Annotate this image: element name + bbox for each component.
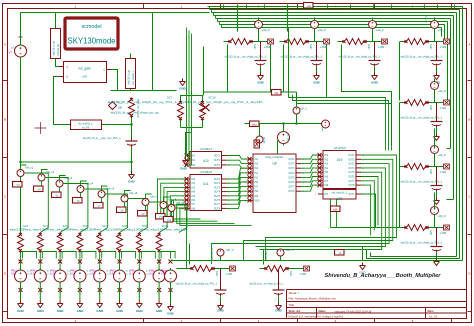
source W9 xyxy=(168,205,175,212)
resistor cell R2 xyxy=(280,18,330,85)
wire RB4 staple xyxy=(80,252,96,271)
svg-text:0 0.1: 0 0.1 xyxy=(11,274,17,276)
net label V5 box xyxy=(52,192,62,198)
wire VB2 to ground xyxy=(39,284,41,301)
svg-text:V11: V11 xyxy=(167,219,172,222)
svg-text:net_bus_a2: net_bus_a2 xyxy=(265,247,268,259)
wire R10 bottom xyxy=(131,118,133,140)
mid pair wiring xyxy=(181,91,203,101)
svg-text:Title:: Title: xyxy=(289,303,296,307)
source VB2 xyxy=(34,268,46,284)
svg-text:File: Acharyya_Booth_Multiplie: File: Acharyya_Booth_Multiplier.sch xyxy=(289,297,337,301)
wire RB11 up xyxy=(263,250,265,265)
wire U78 to resistor R10 xyxy=(102,124,132,126)
svg-text:vdd_1!: vdd_1! xyxy=(438,153,446,157)
junction dots xyxy=(130,123,132,125)
wire W4 to resistor row xyxy=(81,181,87,197)
wires U8 to U19 xyxy=(301,155,318,159)
svg-text:108: 108 xyxy=(118,106,123,110)
svg-text:u76: u76 xyxy=(82,75,87,79)
svg-text:OUT4: OUT4 xyxy=(348,168,355,170)
wire VB4 to ground xyxy=(79,284,81,301)
svg-text:0 0.1: 0 0.1 xyxy=(110,274,116,276)
wire VB7 to ground xyxy=(138,284,140,301)
svg-text:bbl_s4: bbl_s4 xyxy=(86,182,94,186)
svg-text:GND: GND xyxy=(371,81,379,85)
svg-text:+PL3(8)L3: +PL3(8)L3 xyxy=(199,147,212,151)
ground mid xyxy=(180,79,186,86)
resistor RB2 xyxy=(37,233,43,253)
svg-text:SC3: SC3 xyxy=(23,224,29,228)
wire Vbl net horizontal xyxy=(204,28,297,96)
wire res_gate right to net xyxy=(112,54,131,91)
resistor RB1 xyxy=(18,233,24,253)
wire W7 to resistor row xyxy=(146,194,152,210)
svg-text:Vbl: Vbl xyxy=(274,91,278,95)
wire right column cross links xyxy=(447,199,454,201)
svg-text:PWL(: PWL( xyxy=(110,271,116,273)
svg-text:vdd_1!: vdd_1! xyxy=(438,214,446,218)
resistor R12 mid pair xyxy=(178,101,184,121)
svg-text:GND: GND xyxy=(257,81,265,85)
svg-text:0 0.1: 0 0.1 xyxy=(161,274,167,276)
svg-text:OUT2: OUT2 xyxy=(214,160,221,162)
svg-text:OUT2: OUT2 xyxy=(214,183,221,185)
svg-text:1.43M: 1.43M xyxy=(440,107,447,110)
title block frame xyxy=(287,289,467,291)
svg-text:OUT6: OUT6 xyxy=(348,177,355,179)
wire bundle stubs top xyxy=(223,5,225,9)
svg-text:OUT6: OUT6 xyxy=(214,200,221,202)
wire W8 to resistor row xyxy=(164,197,170,213)
resistor cell R4 xyxy=(400,18,450,85)
svg-text:U20: U20 xyxy=(337,197,343,201)
ground on trunk xyxy=(360,263,366,270)
resistor RB6 xyxy=(117,233,123,253)
svg-text:GND: GND xyxy=(180,167,188,171)
terminal marks column 2 xyxy=(38,260,42,264)
wires U11 to U8 xyxy=(227,168,249,179)
svg-text:+PL3(8)L8: +PL3(8)L8 xyxy=(333,146,346,150)
svg-text:vbl_s1: vbl_s1 xyxy=(263,136,266,144)
svg-text:SC5: SC5 xyxy=(63,224,69,228)
svg-text:Size: A4: Size: A4 xyxy=(289,309,301,313)
svg-text:OUT1: OUT1 xyxy=(288,159,295,161)
source VB5 xyxy=(94,268,106,284)
svg-text:OUT3: OUT3 xyxy=(348,164,355,166)
svg-text:PWL(: PWL( xyxy=(90,271,96,273)
svg-text:ved_1!: ved_1! xyxy=(321,124,324,132)
source VB7 xyxy=(133,268,145,284)
wire VB9 to ground xyxy=(170,284,172,304)
top horizontal wire bundle xyxy=(208,6,463,8)
lower band to bottom cells staircase xyxy=(266,201,397,261)
wire RB2 staple xyxy=(40,252,56,271)
svg-text:1575: 1575 xyxy=(310,44,313,50)
svg-text:sky130_fd_pr: sky130_fd_pr xyxy=(128,70,131,85)
resistor cell R5 xyxy=(400,79,450,141)
source VB1 xyxy=(15,268,27,284)
junction dots Vout net xyxy=(295,122,297,124)
source V31 bottom xyxy=(277,249,284,256)
svg-text:1.43M: 1.43M xyxy=(226,273,233,276)
svg-text:GND: GND xyxy=(116,309,124,313)
wire right column left rail xyxy=(399,103,401,228)
svg-text:OUT5: OUT5 xyxy=(348,172,355,174)
net label V11 box xyxy=(164,217,174,223)
svg-text:GND: GND xyxy=(313,81,321,85)
wire W6 to resistor row xyxy=(125,191,131,207)
svg-text:OUT6: OUT6 xyxy=(288,182,295,184)
wire cap R5 to R6 source xyxy=(434,129,436,148)
resistor cell R1 xyxy=(224,18,274,85)
diode D1 diamond xyxy=(109,102,117,110)
terminal marks column 5 xyxy=(98,260,102,264)
svg-text:0 0.1: 0 0.1 xyxy=(70,274,76,276)
terminal marks column 6 xyxy=(118,260,122,264)
wire RB1 staple xyxy=(21,252,37,271)
svg-text:OUT4: OUT4 xyxy=(288,173,295,175)
source VB9 xyxy=(165,268,177,284)
svg-text:vdd_1!: vdd_1! xyxy=(262,28,270,32)
svg-text:SC4: SC4 xyxy=(43,224,49,228)
svg-text:Sheet: /: Sheet: / xyxy=(289,291,300,295)
svg-text:sky130_fd_pr__cap_mim_PVL_1: sky130_fd_pr__cap_mim_PVL_1 xyxy=(83,136,122,140)
source W1 xyxy=(17,170,24,177)
svg-text:vdd_1!: vdd_1! xyxy=(318,28,326,32)
wires below U20 to R7 rail xyxy=(331,199,400,228)
svg-text:1575: 1575 xyxy=(430,169,433,175)
source W4 xyxy=(77,186,84,193)
source VB4 xyxy=(74,268,86,284)
wire W1 to resistor row xyxy=(21,165,27,181)
svg-text:net_bus_a1: net_bus_a1 xyxy=(211,247,214,259)
resistor cell R3 xyxy=(338,18,388,85)
svg-text:B: B xyxy=(4,118,6,122)
net label Vbl box xyxy=(272,90,282,96)
right bundle bottom turn to enclosure xyxy=(363,247,463,261)
svg-text:IN10: IN10 xyxy=(255,200,261,202)
IC U11 box xyxy=(182,170,230,211)
wire RB5 staple xyxy=(100,252,116,271)
svg-text:0 0.1: 0 0.1 xyxy=(130,274,136,276)
svg-text:OUT8: OUT8 xyxy=(348,185,355,187)
svg-text:1575: 1575 xyxy=(254,44,257,50)
wire drop from R3 left terminal xyxy=(342,45,392,146)
wire below V1 down to W column xyxy=(20,59,22,233)
svg-text:U8: U8 xyxy=(272,162,276,166)
right vertical wire bundle xyxy=(462,7,464,261)
svg-text:0 0.1: 0 0.1 xyxy=(150,274,156,276)
svg-text:bbl_s1: bbl_s1 xyxy=(26,166,34,170)
svg-text:v1: v1 xyxy=(11,46,14,50)
net label box below U20 xyxy=(331,206,341,212)
svg-text:GND: GND xyxy=(37,309,45,313)
svg-text:1.43M: 1.43M xyxy=(440,46,447,49)
svg-text:vbl_1: vbl_1 xyxy=(301,107,308,111)
svg-text:bbl_s7: bbl_s7 xyxy=(151,195,159,199)
voltage source V9 mid xyxy=(278,130,290,146)
svg-text:GND: GND xyxy=(96,309,104,313)
svg-text:GND: GND xyxy=(77,309,85,313)
svg-text:1575: 1575 xyxy=(368,44,371,50)
svg-text:GND: GND xyxy=(179,87,187,91)
wire res_gate loop left xyxy=(54,77,71,125)
svg-text:bbl_s9: bbl_s9 xyxy=(177,201,185,205)
svg-text:SC8: SC8 xyxy=(122,224,128,228)
net label V4 box xyxy=(34,186,44,192)
IC U8 box xyxy=(244,154,304,213)
svg-text:PWL(: PWL( xyxy=(161,271,167,273)
wire bundle mid corners xyxy=(289,92,386,151)
source W2 xyxy=(38,174,45,181)
wire VB5 to ground xyxy=(99,284,101,301)
wire below R1 junction xyxy=(270,45,272,93)
wires into U11 left staircase xyxy=(158,179,186,217)
svg-text:vdd_1!: vdd_1! xyxy=(438,28,446,32)
wire VB3 to ground xyxy=(59,284,61,301)
svg-text:OUT1: OUT1 xyxy=(348,194,355,196)
wire drop from R4 left terminal xyxy=(399,42,401,101)
resistor RB4 xyxy=(77,233,83,253)
svg-text:KiCad E.D.A. eeschema 4.0.7+d: KiCad E.D.A. eeschema 4.0.7+dfsg1-1~bpo9… xyxy=(289,315,344,319)
svg-text:vbl_rlmb1k_1: vbl_rlmb1k_1 xyxy=(332,191,348,195)
junction X marks at U11 inputs xyxy=(185,177,189,181)
net label V8 box xyxy=(117,207,127,213)
wire W9 to resistor row xyxy=(172,200,178,216)
net label V10 box xyxy=(156,214,166,220)
border grid tick marks and refs xyxy=(143,4,145,9)
svg-text:sky130_fd_pr__res_xhigh_po_ug: sky130_fd_pr__res_xhigh_po_ug xyxy=(111,112,160,115)
column 9 wire from staircase xyxy=(159,252,171,259)
terminal marks column 3 xyxy=(58,260,62,264)
svg-text:bbl_s5: bbl_s5 xyxy=(107,187,115,191)
svg-text:Vout: Vout xyxy=(252,124,257,127)
svg-text:OUT3: OUT3 xyxy=(214,187,221,189)
svg-text:vdd_1!: vdd_1! xyxy=(226,248,234,252)
svg-text:bbl_s2: bbl_s2 xyxy=(47,170,55,174)
source W8 xyxy=(160,202,167,209)
svg-text:OUT8: OUT8 xyxy=(288,191,295,193)
svg-text:OUT1: OUT1 xyxy=(214,179,221,181)
svg-text:PWL(: PWL( xyxy=(31,271,37,273)
svg-text:1575: 1575 xyxy=(430,44,433,50)
svg-text:GND: GND xyxy=(136,309,144,313)
wire W2 to resistor row xyxy=(42,170,48,186)
resistor cell RB11 xyxy=(250,266,310,313)
svg-text:PWL(: PWL( xyxy=(130,271,136,273)
svg-text:bbl_s3: bbl_s3 xyxy=(65,176,73,180)
junction X marks at U10 inputs xyxy=(185,154,189,158)
svg-text:1575: 1575 xyxy=(430,105,433,111)
wire RB6 staple xyxy=(120,252,136,271)
component X1 sky130 include thin box xyxy=(51,29,61,59)
svg-text:1.43M: 1.43M xyxy=(320,46,327,49)
svg-text:GND: GND xyxy=(275,309,283,313)
svg-text:OUT1: OUT1 xyxy=(214,156,221,158)
component X2 thin box xyxy=(126,59,136,89)
svg-text:GND: GND xyxy=(17,309,25,313)
svg-text:OUT5: OUT5 xyxy=(288,177,295,179)
svg-text:SKY130mode: SKY130mode xyxy=(68,36,116,46)
svg-text:scmodel: scmodel xyxy=(81,24,101,30)
source W6 xyxy=(121,195,128,202)
svg-text:vdd_1!: vdd_1! xyxy=(286,248,294,252)
svg-text:OUT5: OUT5 xyxy=(214,196,221,198)
wire Vout net xyxy=(259,123,326,125)
net label V6 box xyxy=(73,198,83,204)
svg-text:ved: ved xyxy=(307,4,312,8)
svg-text:1.43M: 1.43M xyxy=(440,171,447,174)
svg-text:miercoles, 04 julio 2018 10:04: miercoles, 04 julio 2018 10:04:18 xyxy=(335,311,372,314)
source VB6 xyxy=(114,268,126,284)
svg-text:V7: V7 xyxy=(9,51,13,55)
svg-text:SC10: SC10 xyxy=(209,96,216,100)
svg-text:OUT1: OUT1 xyxy=(348,155,355,157)
svg-text:OUT7: OUT7 xyxy=(348,181,355,183)
source W3 xyxy=(56,180,63,187)
svg-text:0 0.1: 0 0.1 xyxy=(90,274,96,276)
svg-text:Id: 1/1: Id: 1/1 xyxy=(430,315,438,319)
component U78 vbl box xyxy=(71,120,102,130)
svg-text:OUT3: OUT3 xyxy=(288,168,295,170)
resistor cell R7 xyxy=(400,204,450,266)
wires U19 right to lower band xyxy=(361,155,397,201)
svg-text:OUT2: OUT2 xyxy=(288,164,295,166)
resistor RB7 xyxy=(136,233,142,253)
wire band drop x287 xyxy=(287,5,289,32)
svg-text:1.43M: 1.43M xyxy=(300,273,307,276)
wire vertical x152 xyxy=(111,13,177,91)
wire band drop x237 xyxy=(237,5,239,32)
wire below R2 junction xyxy=(326,45,328,98)
svg-text:Rev:: Rev: xyxy=(428,309,435,313)
svg-text:1575: 1575 xyxy=(216,271,219,277)
wire VB1 to ground xyxy=(20,284,22,301)
svg-text:sky130_fd_pr__res_xhigh_po_ug_: sky130_fd_pr__res_xhigh_po_ug_PVL_1_sky1… xyxy=(108,101,264,104)
svg-text:A: A xyxy=(4,43,6,47)
svg-text:SC10: SC10 xyxy=(162,224,169,228)
wire drop from R2 left terminal xyxy=(283,45,285,93)
voltage source V1 xyxy=(15,43,27,59)
ground below C10 xyxy=(131,148,133,172)
svg-text:U19: U19 xyxy=(337,158,343,162)
res_gate subcircuit box U76 xyxy=(64,62,107,83)
svg-text:vbl_rlm81k_1: vbl_rlm81k_1 xyxy=(78,123,93,126)
svg-text:0 0.1: 0 0.1 xyxy=(31,274,37,276)
IC U19 box xyxy=(315,146,364,189)
source V30 bottom xyxy=(217,249,224,256)
voltage source V10 mid xyxy=(322,120,330,128)
wire top-left horizontal net xyxy=(21,12,210,14)
svg-text:res_gate: res_gate xyxy=(78,67,91,71)
terminal marks column 4 xyxy=(78,260,82,264)
capacitor C10 xyxy=(126,139,138,148)
svg-text:GND: GND xyxy=(156,309,164,313)
wire C10 to W1 net xyxy=(21,148,132,163)
svg-text:OUT7: OUT7 xyxy=(214,204,221,206)
resistor cell RB10 xyxy=(176,266,236,313)
IC U10 box xyxy=(182,147,230,168)
svg-text:Date:: Date: xyxy=(319,309,327,313)
net label V9 box xyxy=(138,211,148,217)
wire RB7 staple xyxy=(139,252,155,271)
svg-text:sky130_fd_pr__res_xhigh_po_PVL: sky130_fd_pr__res_xhigh_po_PVL_1 xyxy=(176,283,218,286)
svg-text:U11: U11 xyxy=(203,182,209,186)
svg-text:GND: GND xyxy=(217,309,225,313)
svg-text:GND: GND xyxy=(57,309,65,313)
net label vb box bottom xyxy=(335,250,345,256)
scmodel SKY130 spice directive box xyxy=(65,18,118,49)
junction X marks at U8 inputs xyxy=(248,157,252,161)
source W7 xyxy=(142,199,149,206)
resistor R13 mid pair xyxy=(200,101,206,121)
svg-text:vdd_1!: vdd_1! xyxy=(438,89,446,93)
junction X mark mid xyxy=(202,104,210,111)
IC U20 box xyxy=(315,190,364,202)
wires into U10 left xyxy=(185,28,187,156)
wires U10 to U8 xyxy=(227,156,249,160)
wire W5 to resistor row xyxy=(102,186,108,202)
resistor RB5 xyxy=(97,233,103,253)
svg-text:A: A xyxy=(468,43,470,47)
terminal marks column 9 xyxy=(169,260,173,264)
svg-text:vdd_1!: vdd_1! xyxy=(376,28,384,32)
svg-text:bbl_s8: bbl_s8 xyxy=(169,198,177,202)
wire RB10 left lead xyxy=(177,268,186,270)
svg-text:SC7: SC7 xyxy=(167,96,173,100)
svg-text:net_hi4: net_hi4 xyxy=(425,15,428,23)
wire U20 output to R7 rail xyxy=(361,194,376,228)
bottom trunk wire xyxy=(171,260,463,262)
svg-text:OUT7: OUT7 xyxy=(288,187,295,189)
junction X marks at U19 inputs xyxy=(318,153,322,157)
svg-text:1.43M: 1.43M xyxy=(264,46,271,49)
svg-text:OUT4: OUT4 xyxy=(214,192,221,194)
svg-text:GND: GND xyxy=(167,312,175,316)
terminal marks column 8 xyxy=(157,260,161,264)
net label box top xyxy=(304,3,314,9)
wire drop from R1 left terminal xyxy=(227,45,229,93)
terminal marks column 1 xyxy=(19,260,23,264)
wire RB10 up xyxy=(189,244,191,265)
svg-text:OUT2: OUT2 xyxy=(348,159,355,161)
terminal marks column 7 xyxy=(137,260,141,264)
svg-text:1575: 1575 xyxy=(430,230,433,236)
svg-text:PWL(: PWL( xyxy=(70,271,76,273)
svg-text:OUT8: OUT8 xyxy=(214,208,221,210)
wire VB6 to ground xyxy=(119,284,121,301)
svg-text:sky130Res_sky130Res_sky130Res_: sky130Res_sky130Res_sky130Res_sky130Res_… xyxy=(10,228,189,232)
svg-text:bbl_s6: bbl_s6 xyxy=(130,191,138,195)
svg-text:ctt u78: ctt u78 xyxy=(82,127,90,130)
svg-text:sky130_fd_pr: sky130_fd_pr xyxy=(53,41,56,56)
svg-text:1.43M: 1.43M xyxy=(440,232,447,235)
voltage source V8 mid xyxy=(256,136,263,143)
resistor RB3 xyxy=(57,233,63,253)
svg-text:m28: m28 xyxy=(333,209,338,212)
svg-text:include_lib: include_lib xyxy=(57,44,60,56)
svg-text:res_model_1: res_model_1 xyxy=(132,70,135,84)
wire left vertical net xyxy=(20,13,22,46)
wire RB3 staple xyxy=(60,252,76,271)
svg-text:PWL(: PWL( xyxy=(51,271,57,273)
wire RB8 staple xyxy=(159,252,175,271)
svg-text:1.43M: 1.43M xyxy=(378,46,385,49)
resistor cell R6 xyxy=(400,143,450,205)
svg-text:SC7: SC7 xyxy=(102,224,108,228)
svg-text:OUT3: OUT3 xyxy=(214,165,221,167)
